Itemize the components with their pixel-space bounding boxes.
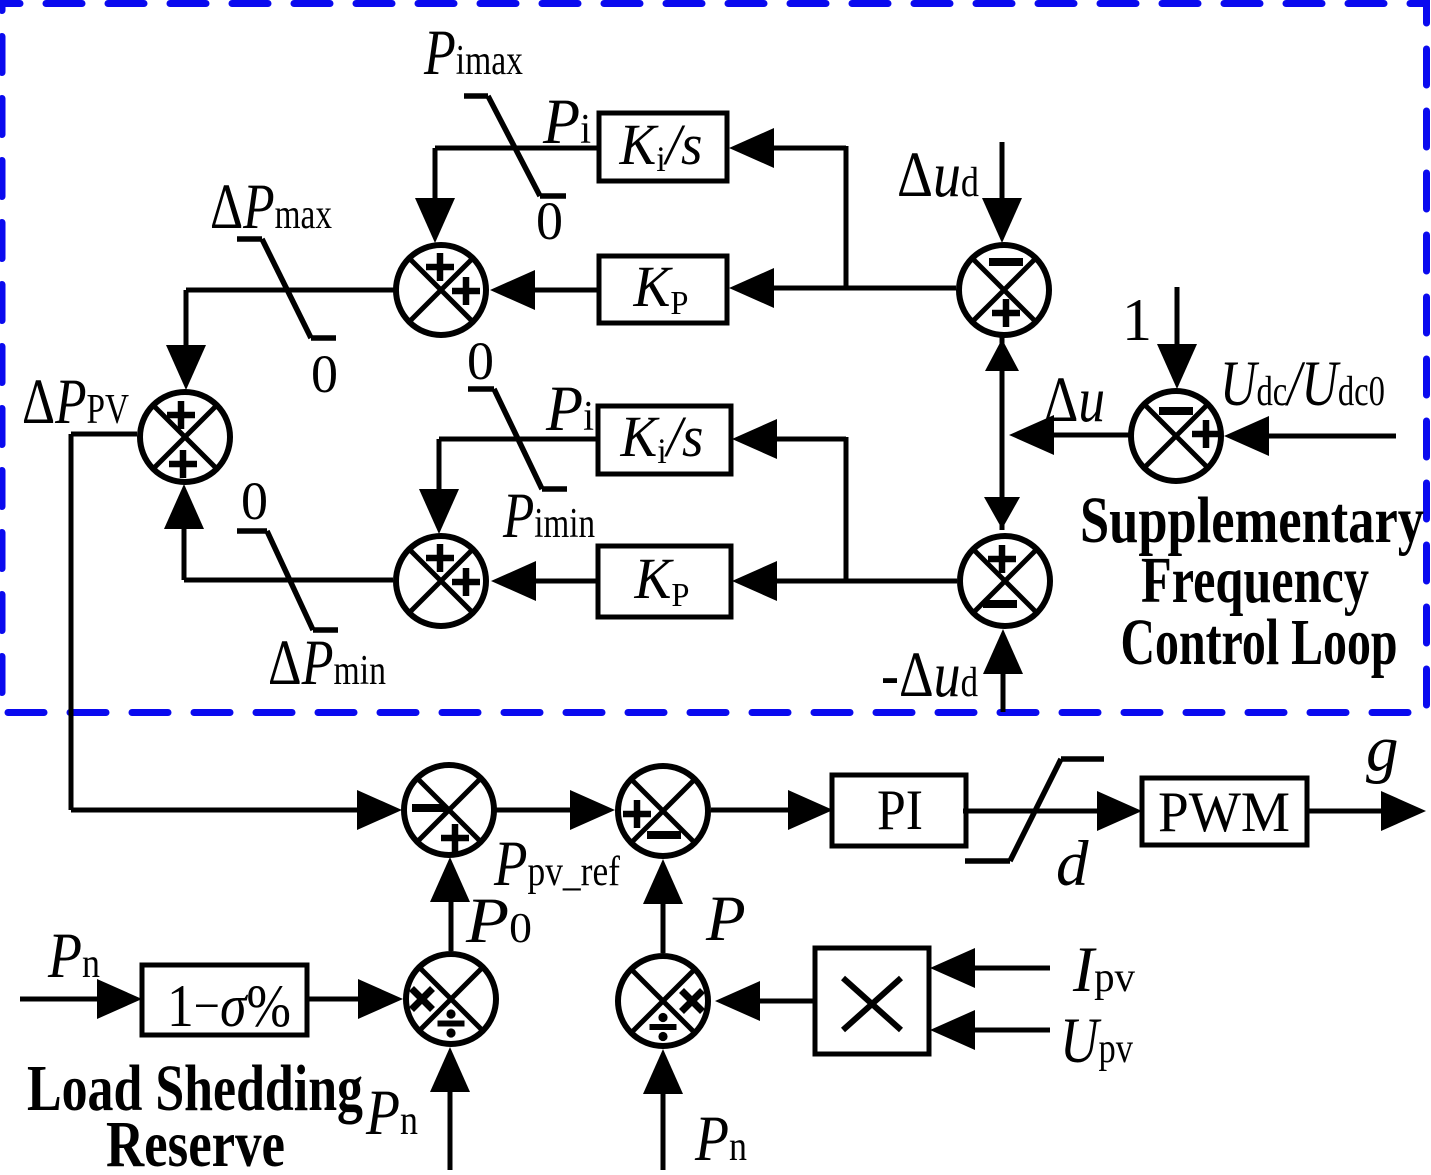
block KP (lower proportional) xyxy=(598,546,731,617)
svg-text:0: 0 xyxy=(536,191,563,251)
label Pn (below H) xyxy=(365,1077,418,1149)
label 0 (L2 lower bound) xyxy=(311,344,338,404)
svg-text:0: 0 xyxy=(467,331,494,391)
label 0 (L3 upper bound) xyxy=(467,331,494,391)
mult-div junction H (x P0 / Pn) xyxy=(406,954,496,1044)
summing junction G (Ppv_ref - P) xyxy=(618,766,708,856)
wire junction B output through L4 up to dPPV junction xyxy=(164,484,393,580)
label Control Loop xyxy=(1121,606,1398,679)
summing junction D (1 - Udc/Udc0) xyxy=(1131,391,1221,481)
wire Pn input to 1-sigma% block xyxy=(20,979,142,1019)
label Ppv_ref xyxy=(493,828,620,900)
summing junction C (delta-ud deadband upper) xyxy=(959,245,1049,335)
wire lower Ki/s output through L3 to junction B xyxy=(419,439,599,534)
label Reserve xyxy=(106,1108,285,1175)
label P (measured power) xyxy=(705,883,746,955)
svg-text:0: 0 xyxy=(311,344,338,404)
limiter L1 (Pi upper, Pimax/0) xyxy=(464,96,566,196)
svg-text:d: d xyxy=(1056,828,1089,900)
limiter L5 (duty cycle d saturation) xyxy=(965,759,1104,861)
label Pn (below I) xyxy=(694,1103,747,1175)
arrow into lower Ki/s xyxy=(732,419,777,459)
wire -delta-ud into junction E xyxy=(983,629,1023,712)
mult-div junction I (x P / Pn) xyxy=(618,956,708,1046)
block multiplier (Ipv x Upv) xyxy=(815,948,929,1054)
svg-text:g: g xyxy=(1366,713,1399,785)
wire multiplier to junction I xyxy=(715,981,815,1021)
wire upper Ki/s output through L1 to junction A xyxy=(415,148,599,243)
label Pi (lower) xyxy=(545,373,594,445)
summing junction F (dPPV + P0 = Ppv_ref) xyxy=(404,765,494,855)
label delta-ud xyxy=(897,139,979,211)
label dPmax xyxy=(210,171,332,243)
label Supplementary xyxy=(1080,484,1424,557)
limiter L3 (Pi lower, 0/Pimin) xyxy=(468,389,567,489)
wire 1-sigma% to junction H xyxy=(307,979,403,1019)
label g (gate signal) xyxy=(1366,713,1399,785)
label Ipv xyxy=(1072,934,1135,1006)
label 0 (L1 lower bound) xyxy=(536,191,563,251)
svg-text:Control Loop: Control Loop xyxy=(1121,606,1398,679)
limiter L2 (dPmax/0) xyxy=(237,239,336,338)
label dPmin xyxy=(268,627,386,699)
wire C to upper KP and riser to upper Ki/s xyxy=(772,146,956,288)
dashed boundary of supplementary frequency control loop xyxy=(2,4,1427,713)
wire dPPV output down and right to junction F xyxy=(71,434,402,830)
node vertical wire between C and E with arrows xyxy=(984,337,1020,530)
wire junction A output through L2 down to dPPV junction xyxy=(166,290,394,390)
wire constant 1 into junction D xyxy=(1157,287,1197,389)
label Pn (input left) xyxy=(47,920,100,992)
svg-text:PI: PI xyxy=(877,779,923,842)
label Pi (upper) xyxy=(542,86,591,158)
block Ki/s (lower integrator) xyxy=(598,404,731,474)
wire lower KP output to junction B xyxy=(491,561,599,601)
block PWM xyxy=(1142,778,1307,845)
wire F to G (Ppv_ref) xyxy=(496,790,615,830)
svg-text:1: 1 xyxy=(1122,287,1152,353)
wire delta-u from D to C-E riser xyxy=(1009,415,1129,455)
summing junction dPPV (dPmax + dPmin) xyxy=(140,392,230,482)
wire Udc/Udc0 into junction D xyxy=(1224,416,1396,456)
arrow into lower KP xyxy=(732,561,777,601)
label -delta-ud xyxy=(881,639,978,711)
arrow into upper Ki/s xyxy=(729,128,774,168)
label 0 (L4 upper bound) xyxy=(241,471,268,531)
label P0 xyxy=(465,885,532,957)
wire Upv into multiplier xyxy=(930,1010,1050,1050)
block KP (upper proportional) xyxy=(599,254,727,323)
wire Pn up into I xyxy=(643,1049,683,1170)
label Pimax xyxy=(423,17,523,89)
wire G to PI xyxy=(711,790,833,830)
block PI controller xyxy=(832,775,966,846)
summing junction A (upper, Ki/s + KP) xyxy=(396,245,486,335)
block Ki/s (upper integrator) xyxy=(599,112,727,181)
label Upv xyxy=(1060,1005,1133,1077)
svg-text:Reserve: Reserve xyxy=(106,1108,285,1170)
label 1 (constant input) xyxy=(1122,287,1152,353)
wire delta-ud input to junction C xyxy=(982,142,1022,243)
svg-text:0: 0 xyxy=(241,471,268,531)
label Load Shedding xyxy=(27,1052,363,1125)
label delta-u xyxy=(1044,364,1105,436)
label dPPV xyxy=(22,366,129,438)
wire I up to G (P) xyxy=(643,859,683,953)
summing junction E (deadband lower, -delta-ud) xyxy=(960,536,1050,626)
label Pimin xyxy=(502,480,595,552)
wire E to lower KP and riser to lower Ki/s xyxy=(775,437,957,581)
wire upper KP output to junction A xyxy=(490,270,599,310)
arrow into upper KP xyxy=(729,268,774,308)
summing junction B (lower, Ki/s + KP) xyxy=(396,536,486,626)
svg-text:Δu: Δu xyxy=(1044,364,1105,436)
block 1-sigma% (load shedding factor) xyxy=(142,965,307,1039)
label d (duty cycle) xyxy=(1056,828,1089,900)
svg-text:1−σ%: 1−σ% xyxy=(167,973,291,1039)
wire PI through limiter L5 to PWM xyxy=(963,791,1142,831)
label Frequency xyxy=(1141,544,1369,617)
label Udc/Udc0 xyxy=(1220,348,1385,420)
limiter L4 (0/dPmin) xyxy=(237,531,338,630)
wire H up to F (P0) xyxy=(430,857,470,951)
svg-text:PWM: PWM xyxy=(1158,781,1290,844)
wire Pn up into H xyxy=(430,1047,470,1170)
svg-text:P: P xyxy=(705,883,746,955)
wire PWM output g xyxy=(1307,791,1426,831)
wire Ipv into multiplier xyxy=(930,948,1050,988)
